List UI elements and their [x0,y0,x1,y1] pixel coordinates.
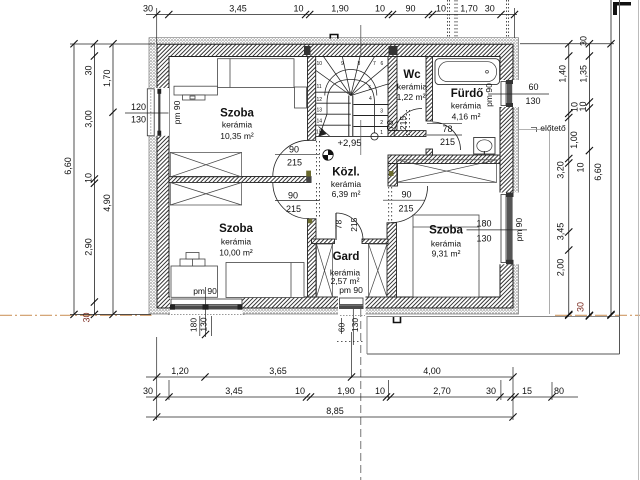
svg-text:2,00: 2,00 [556,259,566,277]
svg-text:14: 14 [317,119,323,125]
svg-text:2,70: 2,70 [433,386,451,396]
rotated L glyph top right [613,2,631,15]
svg-text:10: 10 [295,386,305,396]
svg-text:90: 90 [288,190,298,200]
svg-text:130: 130 [476,233,491,243]
window W2 bottom 180/130 [171,299,242,305]
svg-text:15: 15 [522,386,532,396]
opening: left window W1 [148,88,170,133]
wall V1 upper (left rooms / stairs) [308,57,316,141]
outer wall (hatched) [157,44,513,308]
svg-text:2,90: 2,90 [84,238,94,256]
svg-text:30: 30 [486,386,496,396]
wall V4 upper stub (kozl / room 9.31) [388,164,398,187]
svg-text:Fürdő: Fürdő [451,88,484,100]
svg-text:10,35 m²: 10,35 m² [220,131,254,141]
svg-text:30: 30 [143,386,153,396]
vertical section line [360,25,362,57]
svg-text:215: 215 [349,217,359,231]
svg-text:4,00: 4,00 [423,366,441,376]
desk room2 [171,266,218,297]
bathtub [435,59,500,85]
svg-text:130: 130 [350,318,360,332]
top extension lines [156,8,158,44]
washbasin [474,138,495,155]
svg-text:1,70: 1,70 [460,4,478,14]
svg-text:78: 78 [442,124,452,134]
stair newel double line [348,96,350,137]
svg-text:3,20: 3,20 [556,161,566,179]
svg-text:130: 130 [199,317,209,331]
chimney mark top [330,35,338,39]
wardrobe X-boxes [170,153,496,298]
svg-text:1,70: 1,70 [102,69,112,87]
insulation band (outer) [149,38,519,314]
svg-text:Szoba: Szoba [429,225,463,237]
svg-text:10: 10 [436,4,446,14]
door thresholds dotted [317,110,410,342]
canopy outline [549,130,551,314]
window W3 right 60/130 [507,81,512,106]
svg-text:Szoba: Szoba [220,108,254,120]
svg-text:kerámia: kerámia [397,82,428,92]
nightstand room1 [295,87,307,108]
svg-text:90: 90 [405,4,415,14]
door D2 room2 arc [273,183,309,219]
svg-text:pm 90: pm 90 [172,100,182,124]
svg-text:215: 215 [287,158,302,168]
svg-text:3: 3 [380,109,383,115]
opening: right bath window W3 [500,80,520,107]
wall V4 lower (gard / room 9.31) [387,223,397,297]
svg-text:6,39 m²: 6,39 m² [332,189,361,199]
svg-text:215: 215 [398,116,408,130]
bed room2 [226,263,304,298]
desk room1 [174,86,218,95]
svg-text:Wc: Wc [403,69,421,81]
svg-text:1,90: 1,90 [337,386,355,396]
svg-text:kerámia: kerámia [222,120,253,130]
door D6 gard arc + leaf [336,213,363,240]
svg-text:pm 90: pm 90 [484,83,494,107]
svg-text:10: 10 [84,173,94,183]
svg-text:12: 12 [317,97,323,103]
svg-text:pm 90: pm 90 [193,286,217,296]
svg-text:30: 30 [576,302,586,312]
frame lines [610,0,612,316]
opening: bottom window W2 [170,296,243,315]
svg-text:+2,95: +2,95 [337,138,361,149]
svg-text:3,45: 3,45 [556,223,566,241]
svg-text:Közl.: Közl. [332,167,359,179]
staircase [316,57,388,137]
door D1 room1 arc [273,140,309,176]
svg-text:1: 1 [380,130,383,136]
jamb blocks dark [304,46,311,55]
svg-text:10: 10 [578,101,588,111]
wall H3 left (gard top) [312,239,335,244]
svg-text:13: 13 [317,108,323,114]
svg-text:10: 10 [293,4,303,14]
svg-text:1,40: 1,40 [558,65,568,83]
svg-text:kerámia: kerámia [431,239,462,249]
svg-text:Szoba: Szoba [219,223,253,235]
window W1 left 120/130 [147,89,169,136]
wall H4 (wc bottom) [388,131,426,137]
svg-text:9: 9 [341,61,344,67]
svg-text:30: 30 [84,65,94,75]
svg-text:1,00: 1,00 [569,131,579,149]
svg-text:6,60: 6,60 [63,157,73,175]
svg-text:10,00 m²: 10,00 m² [219,248,253,258]
svg-text:pm 90: pm 90 [514,218,524,242]
svg-text:7: 7 [373,61,376,67]
right dimension chains [568,44,570,315]
svg-text:80: 80 [554,386,564,396]
svg-text:4: 4 [369,96,372,102]
svg-text:3,00: 3,00 [84,110,94,128]
window W5 gard 60/130 [339,305,364,309]
opening: gard small window W5 [338,296,366,315]
svg-text:pm 90: pm 90 [339,285,363,295]
bottom dimension chains [146,376,513,378]
svg-text:90: 90 [289,144,299,154]
svg-text:8: 8 [358,61,361,67]
svg-text:Gard: Gard [333,251,360,263]
drain mark bottom [394,316,401,323]
door D3 wc arc [394,109,422,137]
wall H1 (between left rooms) [169,177,311,183]
printer room2 [180,259,205,266]
wall V3 stub below bath door [426,149,433,157]
svg-text:215: 215 [398,204,413,214]
door labels [275,153,320,155]
bed room3 [413,215,479,297]
svg-text:3,45: 3,45 [225,386,243,396]
svg-text:4,90: 4,90 [102,194,112,212]
svg-text:180: 180 [189,318,199,332]
orange section line [0,314,640,316]
svg-text:9,31 m²: 9,31 m² [432,249,461,259]
svg-text:8,85: 8,85 [326,406,344,416]
svg-text:10: 10 [375,386,385,396]
svg-text:130: 130 [525,96,540,106]
svg-text:180: 180 [476,218,491,228]
svg-text:30: 30 [82,312,92,322]
wall V3 (wc / bath) [426,57,433,122]
svg-text:120: 120 [131,102,146,112]
opening: right room window W4 [500,193,520,265]
wall V1 lower (left room / gard) [308,219,317,297]
svg-text:11: 11 [317,84,322,90]
svg-text:1,22 m²: 1,22 m² [397,92,426,102]
svg-text:30: 30 [143,4,153,14]
svg-text:10: 10 [317,61,323,67]
svg-text:1,20: 1,20 [171,366,189,376]
svg-text:6: 6 [381,61,384,67]
top dimension chain [146,14,517,16]
svg-text:130: 130 [131,115,146,125]
svg-text:10: 10 [375,4,385,14]
wall H3 right (gard top) [362,239,388,244]
svg-text:30: 30 [485,4,495,14]
svg-text:kerámia: kerámia [451,101,482,111]
svg-text:30: 30 [579,36,589,46]
svg-text:2: 2 [380,120,383,126]
svg-text:kerámia: kerámia [331,179,362,189]
svg-text:3,45: 3,45 [229,4,247,14]
svg-text:215: 215 [440,137,455,147]
level marker +2,95 [323,150,333,160]
svg-text:előtető: előtető [540,123,566,133]
svg-text:78: 78 [333,220,343,230]
stair walk line with arrow [371,133,378,140]
svg-text:15: 15 [316,129,322,135]
svg-text:5: 5 [369,86,372,92]
door D5 room3 arc [391,186,428,223]
door D4 bath arc [433,122,461,150]
svg-text:1,90: 1,90 [331,4,349,14]
window W4 right 180/130 [507,194,513,263]
bed room1 [218,59,295,88]
svg-text:4,16 m²: 4,16 m² [452,112,481,122]
svg-text:60: 60 [528,82,538,92]
wall V2 (stairs / wc) [388,57,397,131]
svg-text:10: 10 [576,162,586,172]
left dimension chains [73,44,75,315]
bottom extension lines [156,337,158,420]
svg-text:kerámia: kerámia [221,237,252,247]
svg-text:90: 90 [401,190,411,200]
svg-text:215: 215 [286,204,301,214]
svg-text:1,35: 1,35 [579,65,589,83]
svg-text:6,60: 6,60 [593,163,603,181]
svg-text:3,65: 3,65 [269,366,287,376]
svg-text:78: 78 [385,120,395,130]
wall H2 (bath bottom) [388,155,500,164]
